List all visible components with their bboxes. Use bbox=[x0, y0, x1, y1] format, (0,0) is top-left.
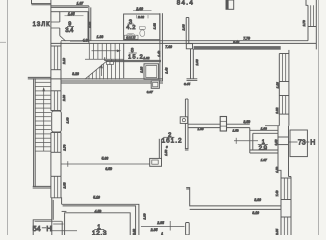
wall left main vertical bbox=[50, 0, 52, 46]
framed label 0.82 bbox=[125, 35, 139, 39]
room 9 walls bbox=[51, 12, 88, 41]
toilet bbox=[139, 26, 145, 36]
left exterior wall: window segment 3 bbox=[51, 133, 61, 153]
dimension line 3.50 leader bbox=[234, 138, 258, 144]
svg-text:1.99: 1.99 bbox=[198, 127, 204, 131]
unit label 73-Н box bbox=[289, 130, 316, 157]
svg-text:161.2: 161.2 bbox=[162, 137, 182, 144]
wall band right face upper bbox=[60, 41, 62, 46]
left exterior wall: window segment 4 bbox=[51, 176, 61, 198]
unit label 54-Н box bbox=[33, 220, 62, 235]
room 1 number bbox=[258, 140, 268, 146]
room 12.3 number bbox=[94, 225, 104, 231]
svg-text:4.30: 4.30 bbox=[83, 39, 90, 43]
svg-text:0.44: 0.44 bbox=[184, 82, 190, 86]
svg-text:2.85: 2.85 bbox=[275, 229, 279, 235]
svg-text:2.30: 2.30 bbox=[62, 95, 66, 102]
outer wall top of room-9 block bbox=[51, 6, 89, 8]
svg-text:1.50: 1.50 bbox=[275, 166, 279, 172]
right wall band: pier below window B bbox=[265, 114, 289, 126]
svg-text:1.26: 1.26 bbox=[140, 66, 144, 72]
right wall band: window B bbox=[279, 96, 289, 115]
svg-text:13ЛК: 13ЛК bbox=[33, 22, 51, 28]
outer wall right of room-9 block bbox=[89, 6, 91, 44]
room 2 label bbox=[164, 133, 175, 139]
room 8 label bbox=[129, 48, 137, 54]
left exterior wall: window segment 2 bbox=[51, 91, 61, 111]
svg-text:1: 1 bbox=[161, 232, 163, 235]
stair hall bottom wall bbox=[61, 79, 163, 81]
door boxes stair lobby bbox=[107, 62, 114, 65]
chimney box top bbox=[226, 0, 234, 9]
dimension 2.60 bbox=[133, 7, 152, 11]
interior stub wall A bbox=[186, 18, 193, 79]
svg-text:4.59: 4.59 bbox=[95, 210, 102, 214]
svg-text:7.60: 7.60 bbox=[165, 45, 172, 49]
svg-text:2.60: 2.60 bbox=[135, 7, 143, 11]
right wall lower: window C bbox=[281, 177, 291, 200]
svg-text:2.70: 2.70 bbox=[63, 144, 67, 151]
leader line from 54-Н bbox=[51, 230, 77, 232]
svg-text:1.63: 1.63 bbox=[261, 127, 267, 131]
svg-text:Н: Н bbox=[46, 224, 51, 233]
wall pocket left of room 12.3 bbox=[53, 221, 63, 235]
svg-text:15.2: 15.2 bbox=[128, 54, 143, 60]
svg-text:0.80: 0.80 bbox=[274, 139, 278, 145]
right wall lower: window D bbox=[281, 217, 291, 235]
dimension line 2.95 bbox=[141, 221, 185, 231]
stair flight arrow bbox=[92, 49, 122, 52]
svg-text:2.95: 2.95 bbox=[156, 221, 164, 225]
lower stair compartment top wall bbox=[28, 77, 61, 79]
svg-text:3.80: 3.80 bbox=[254, 198, 261, 202]
lower stair treads bbox=[35, 82, 51, 151]
stair winder diagonal bbox=[85, 61, 107, 79]
room 2 top wall bbox=[61, 82, 163, 84]
wall top-left stub box bbox=[32, 0, 51, 5]
stub A foot bbox=[187, 79, 198, 81]
svg-text:1.87: 1.87 bbox=[77, 1, 84, 5]
right wall jog to lower band bbox=[278, 170, 291, 178]
svg-text:2.10: 2.10 bbox=[62, 58, 66, 65]
svg-text:0.97: 0.97 bbox=[147, 90, 153, 94]
svg-text:1.39: 1.39 bbox=[143, 213, 147, 219]
dimension line 5.68/6.50 bbox=[68, 161, 150, 167]
room 9 door leaf bbox=[60, 36, 66, 41]
page border left bbox=[0, 0, 7, 235]
corridor wall band bbox=[160, 13, 163, 81]
wall horizontal lower bbox=[51, 42, 316, 44]
right wall door band bbox=[278, 126, 289, 177]
svg-text:2.58: 2.58 bbox=[63, 182, 67, 189]
interior stub wall B bbox=[185, 99, 189, 150]
room 12.3 outer top wall bbox=[62, 204, 139, 235]
left exterior wall: window segment 1 bbox=[51, 46, 61, 70]
door tick room 9 lower bbox=[51, 27, 60, 29]
svg-text:1.53: 1.53 bbox=[233, 129, 239, 133]
svg-text:2.95: 2.95 bbox=[150, 228, 158, 232]
svg-text:2.32: 2.32 bbox=[137, 15, 144, 19]
wall segment x=160 in room 2 bbox=[159, 139, 161, 159]
room 12.3 inner walls bbox=[62, 211, 131, 235]
stair right wall bbox=[123, 43, 125, 78]
right wall lower: pier bbox=[281, 200, 291, 218]
right wall band: pier bbox=[279, 82, 289, 96]
wall tick at dimension line bbox=[61, 163, 68, 165]
sink bbox=[127, 34, 135, 39]
svg-text:Н: Н bbox=[310, 140, 315, 147]
lower stair arrow bbox=[42, 87, 45, 151]
svg-text:2.06: 2.06 bbox=[195, 59, 199, 66]
wall right end down stub bbox=[315, 43, 317, 49]
svg-text:3.50: 3.50 bbox=[244, 120, 251, 124]
wall horizontal upper bbox=[61, 40, 308, 42]
svg-text:1.56: 1.56 bbox=[164, 149, 168, 155]
thick wall bar bbox=[194, 46, 281, 50]
left wall corner jog at bottom bbox=[51, 198, 62, 205]
svg-text:1.18: 1.18 bbox=[276, 82, 280, 88]
pier in interior wall bbox=[220, 117, 226, 132]
svg-text:0.40: 0.40 bbox=[233, 40, 239, 44]
door leaf bottom bbox=[186, 223, 190, 236]
room 9 number bbox=[67, 22, 74, 28]
dimension 2.32 bbox=[137, 15, 148, 19]
left wall thin band to bottom bbox=[52, 198, 53, 235]
right wall upper band with window bbox=[306, 0, 316, 43]
svg-text:3.28: 3.28 bbox=[72, 72, 79, 76]
stair winder arrow bbox=[100, 64, 103, 76]
room 3 walls bbox=[124, 14, 160, 40]
left exterior wall: pier 1 bbox=[51, 70, 61, 91]
svg-text:1.00: 1.00 bbox=[65, 117, 69, 123]
lower stair bottom wall bbox=[33, 186, 51, 188]
svg-text:2.70: 2.70 bbox=[302, 20, 306, 27]
svg-text:2.06: 2.06 bbox=[181, 24, 185, 31]
stair upper flight treads bbox=[85, 43, 124, 59]
svg-text:12.3: 12.3 bbox=[92, 230, 107, 235]
room 3 number bbox=[127, 20, 133, 26]
entrance door leaf bbox=[52, 111, 62, 132]
svg-text:54: 54 bbox=[33, 224, 41, 233]
svg-text:5.10: 5.10 bbox=[93, 195, 100, 199]
wall below room 8 bbox=[105, 57, 161, 61]
lower stair left wall bbox=[34, 78, 36, 187]
svg-text:5.68: 5.68 bbox=[102, 157, 109, 161]
svg-text:1.40: 1.40 bbox=[157, 50, 161, 56]
stub wall small box at wall crossing bbox=[186, 44, 192, 49]
svg-text:1.65: 1.65 bbox=[68, 12, 75, 16]
hatched box on stub B bbox=[180, 117, 187, 124]
stair winder treads bbox=[89, 59, 120, 79]
svg-text:7.70: 7.70 bbox=[243, 37, 250, 41]
svg-text:2.22: 2.22 bbox=[275, 107, 279, 114]
door tick room 9 upper bbox=[51, 21, 60, 23]
svg-text:1.02: 1.02 bbox=[143, 56, 149, 60]
svg-text:6.50: 6.50 bbox=[105, 167, 112, 171]
room 1 (2.9) walls bbox=[250, 128, 278, 153]
svg-text:4.2: 4.2 bbox=[126, 25, 135, 31]
interior wall with openings bbox=[188, 124, 250, 127]
svg-text:3.4: 3.4 bbox=[65, 28, 74, 34]
vent shaft big box bbox=[144, 64, 159, 80]
room 2 bottom wall bbox=[186, 188, 281, 210]
svg-text:1.88: 1.88 bbox=[97, 35, 104, 39]
svg-text:1.48: 1.48 bbox=[164, 67, 168, 73]
right wall band: upper window A bbox=[279, 50, 289, 82]
svg-text:73: 73 bbox=[298, 140, 306, 147]
dimension 1.65 bbox=[65, 12, 84, 16]
svg-text:2.9: 2.9 bbox=[259, 145, 268, 152]
svg-text:8.10: 8.10 bbox=[252, 211, 259, 215]
svg-text:2.63: 2.63 bbox=[132, 229, 136, 235]
pier box at wall end bbox=[150, 158, 162, 166]
svg-text:1.92: 1.92 bbox=[87, 21, 91, 27]
vent shaft small box bbox=[151, 81, 159, 89]
svg-text:7.40: 7.40 bbox=[275, 190, 279, 196]
svg-text:1.67: 1.67 bbox=[261, 158, 267, 162]
left exterior wall: pier 2 bbox=[51, 152, 61, 176]
svg-text:1.62: 1.62 bbox=[153, 23, 157, 29]
page border right bbox=[318, 0, 320, 235]
